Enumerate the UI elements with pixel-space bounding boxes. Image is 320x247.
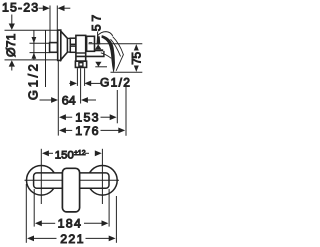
lever mount front face xyxy=(103,51,105,57)
G1/2 left bottom arrow xyxy=(32,53,37,59)
dim 153 left arrow xyxy=(59,114,66,120)
outlet transition lines xyxy=(76,60,87,62)
svg-text:15-23: 15-23 xyxy=(2,1,39,15)
dim 150 left arrow xyxy=(42,150,49,156)
dim 57 leader line xyxy=(97,32,99,45)
G1/2 left top arrow xyxy=(32,37,37,43)
dim 57 top arrow xyxy=(95,44,101,49)
svg-text:176: 176 xyxy=(75,124,100,138)
75-dim bottom ref line xyxy=(111,71,143,73)
escutcheon circle left xyxy=(27,166,57,196)
wall-plane extension line (x=58.3) xyxy=(57,61,59,136)
extension line stub-left xyxy=(49,6,51,43)
union nut upper xyxy=(70,38,76,44)
axis extension line left (stub top) xyxy=(30,42,50,44)
dim 153 right arrow xyxy=(101,116,111,118)
stub bottom extension line xyxy=(30,52,50,54)
lever ghost outline inner xyxy=(111,39,121,56)
svg-text:Ø71: Ø71 xyxy=(4,33,18,57)
221 extension line right xyxy=(115,196,117,243)
svg-text:G1/2: G1/2 xyxy=(26,62,41,101)
wall line xyxy=(45,30,47,87)
dim 15-23 arrow right xyxy=(58,5,65,11)
outlet-bottom reference line xyxy=(95,66,107,68)
svg-text:64: 64 xyxy=(62,94,76,108)
dim 184 right arrow xyxy=(84,222,102,224)
lever mount column xyxy=(97,36,101,44)
svg-text:57: 57 xyxy=(90,12,104,31)
G1/2 left dim vertical line xyxy=(33,30,35,60)
dim Ø71 top arrow xyxy=(9,24,15,30)
handle base xyxy=(87,36,95,51)
axis line right segment (75-dim top ref) xyxy=(89,43,143,45)
extension line stub-right xyxy=(56,6,58,43)
body bar xyxy=(34,173,109,188)
dim 75 bottom arrow xyxy=(134,66,139,72)
outlet extension line left xyxy=(76,68,78,86)
svg-text:75: 75 xyxy=(129,52,143,65)
handle base inner dash xyxy=(89,42,93,44)
body shelf line xyxy=(76,55,105,57)
dim 150 right arrow xyxy=(85,152,89,154)
dim 64 left arrow xyxy=(51,97,58,103)
dim 75 top arrow xyxy=(134,44,139,50)
184 extension line left xyxy=(33,189,35,227)
svg-text:±12: ±12 xyxy=(74,150,86,157)
lever ghost outline outer (open position) xyxy=(113,37,124,71)
dim 176 left arrow xyxy=(59,127,66,133)
escutcheon cone xyxy=(61,31,68,60)
dim 15-23 arrow left xyxy=(39,7,45,9)
knob top curve xyxy=(97,32,112,36)
outlet nut xyxy=(75,61,86,67)
184 extension line right xyxy=(108,189,110,227)
G 1/2 right arrows xyxy=(69,82,71,84)
dim 64 right arrow xyxy=(81,97,88,103)
dim Ø71 bottom arrow xyxy=(9,60,15,66)
centerline left union xyxy=(40,149,42,204)
dim 221 left arrow xyxy=(27,236,34,242)
svg-text:221: 221 xyxy=(60,232,85,246)
union nut lower xyxy=(70,46,76,52)
dim Ø71 top extension line xyxy=(5,29,58,31)
dim Ø71 bottom extension line xyxy=(5,59,58,61)
knob bottom curve xyxy=(101,53,112,59)
dim 184 left arrow xyxy=(35,220,42,226)
dim 176 right arrow xyxy=(101,129,119,131)
G1/2 left leader / 64 left arrow tail xyxy=(40,99,52,101)
handle underside bar xyxy=(94,49,103,51)
dim 57 bottom arrow xyxy=(95,62,101,67)
centerline right union xyxy=(101,149,103,204)
valve housing xyxy=(76,35,86,61)
s-union stub xyxy=(50,43,58,53)
221 extension line left xyxy=(25,184,27,243)
escutcheon circle right xyxy=(88,166,118,196)
dim 221 right arrow xyxy=(86,237,110,239)
outlet extension line right xyxy=(84,68,86,86)
outlet thread inner xyxy=(79,63,83,66)
svg-text:150: 150 xyxy=(55,149,74,161)
outlet center line xyxy=(80,68,82,103)
svg-text:184: 184 xyxy=(58,217,83,231)
housing inner line upper xyxy=(76,52,86,54)
svg-text:G1/2: G1/2 xyxy=(100,76,131,90)
handle front view xyxy=(62,168,79,212)
lever (bold filled band) xyxy=(101,35,115,73)
escutcheon flange xyxy=(58,30,61,60)
176 right extension line xyxy=(125,83,127,136)
153 right extension line xyxy=(116,90,118,123)
connector ring xyxy=(68,38,71,52)
horizontal centerline xyxy=(25,179,120,181)
svg-text:153: 153 xyxy=(75,111,100,125)
